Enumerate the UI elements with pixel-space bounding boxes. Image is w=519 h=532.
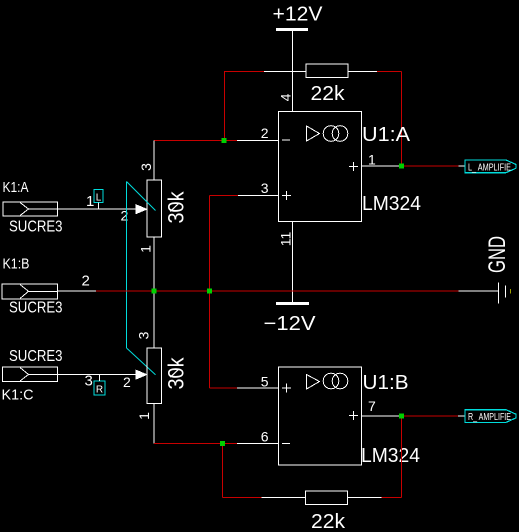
wire white stub left of bottom 22k: [262, 497, 306, 499]
svg-text:5: 5: [261, 374, 269, 390]
svg-text:LM324: LM324: [362, 193, 421, 215]
wire white terminal R stub: [458, 415, 465, 417]
svg-text:2: 2: [261, 125, 269, 141]
wire white K1:B stub: [58, 290, 97, 292]
wire white pin 3 stub: [238, 195, 279, 197]
connector K1:A: [3, 179, 63, 236]
svg-text:30k: 30k: [164, 191, 189, 224]
svg-text:L: L: [96, 193, 102, 204]
wire red bottom feedback horizontal: [223, 497, 262, 499]
junction plus-inputs / rail: [207, 289, 212, 294]
connector K1:C: [2, 348, 63, 404]
wire red pin6 feedback vertical: [222, 444, 224, 498]
wire red feedback top-left vertical: [224, 72, 226, 141]
wire red plus-inputs vertical: [209, 196, 211, 389]
ground symbol: [484, 236, 511, 304]
svg-text:GND: GND: [484, 236, 511, 273]
svg-text:SUCRE3: SUCRE3: [9, 300, 63, 317]
svg-text:U1:A: U1:A: [362, 124, 411, 146]
resistor 22k (bottom feedback): [306, 491, 348, 532]
svg-text:6: 6: [261, 429, 269, 445]
svg-text:L_ AMPLIFIE: L_ AMPLIFIE: [468, 163, 511, 174]
svg-text:LM324: LM324: [361, 445, 420, 467]
wire white pin 7 output stub: [362, 415, 402, 417]
junction pin6: [220, 441, 225, 446]
wire white pin 6 stub: [237, 443, 279, 445]
svg-text:K1:C: K1:C: [2, 387, 34, 404]
wire K1:C to bottom pot wiper: [58, 374, 137, 376]
svg-text:K1:A: K1:A: [3, 179, 29, 196]
wire red pin 5 horizontal: [210, 387, 238, 389]
svg-text:1: 1: [138, 245, 154, 253]
wire white stub right of 22k: [348, 71, 377, 73]
svg-text:3: 3: [85, 373, 93, 390]
wire white pin 1 output stub: [362, 165, 402, 167]
svg-text:2: 2: [121, 208, 129, 224]
pot gang actuator line: [127, 182, 156, 375]
svg-text:22k: 22k: [311, 511, 346, 532]
wire white terminal stub: [459, 165, 465, 167]
power +12V: [273, 4, 324, 32]
potentiometer 30k (top): [136, 180, 189, 237]
svg-text:7: 7: [368, 398, 376, 414]
wire red pin 3 horizontal: [210, 195, 239, 197]
junction top pin2: [222, 138, 227, 143]
wire red output to terminal R: [402, 415, 459, 417]
wire red feedback right vertical: [401, 72, 403, 167]
svg-text:1: 1: [368, 152, 376, 168]
connector K1:B: [2, 256, 63, 317]
svg-text:+12V: +12V: [273, 4, 324, 26]
svg-text:SUCRE3: SUCRE3: [9, 348, 63, 365]
wire white pin 5 stub: [237, 387, 279, 389]
wire red output feedback vertical: [401, 416, 403, 498]
junction U1:B output: [399, 414, 404, 419]
svg-text:4: 4: [278, 93, 294, 101]
wire white pin 11 stub down through gnd rail: [292, 222, 294, 303]
svg-text:2: 2: [123, 374, 131, 390]
wire white pin 2 stub: [237, 140, 279, 142]
svg-text:1: 1: [136, 412, 152, 420]
svg-text:22k: 22k: [311, 83, 346, 105]
wire red pot1 to pin6 junction: [154, 443, 237, 445]
node label L: [94, 190, 103, 210]
resistor 22k (top feedback): [306, 64, 348, 105]
svg-text:2: 2: [82, 273, 90, 290]
wire red output to terminal: [402, 165, 459, 167]
potentiometer 30k (bottom): [136, 348, 189, 404]
wire white pot bottom pin 1 to rail: [153, 237, 155, 291]
wire white pot top pin 3: [153, 141, 155, 181]
svg-text:3: 3: [261, 180, 269, 196]
junction pot chain / rail: [152, 289, 157, 294]
wire red top horizontal right: [377, 71, 402, 73]
op-amp U1:A: [279, 112, 422, 222]
wire white bottom pot pin 1: [153, 404, 155, 444]
wire red pot3 to pin2 junction: [154, 140, 237, 142]
svg-text:3: 3: [136, 331, 152, 339]
node label R: [94, 375, 105, 396]
svg-text:−12V: −12V: [264, 313, 317, 335]
wire +12V vertical to U1:A pin 4: [292, 31, 294, 112]
svg-text:30k: 30k: [164, 357, 189, 390]
wire white stub right of bottom 22k: [348, 497, 382, 499]
wire K1:A to top pot wiper: [58, 208, 137, 210]
wire white bottom pot pin 3: [153, 291, 155, 348]
power -12V: [264, 302, 317, 335]
svg-text:R_ AMPLIFIE: R_ AMPLIFIE: [468, 412, 511, 423]
wire red top horizontal left of R: [224, 71, 264, 73]
svg-text:11: 11: [278, 232, 294, 247]
svg-text:SUCRE3: SUCRE3: [9, 219, 63, 236]
wire red bottom feedback right: [382, 497, 402, 499]
svg-text:1: 1: [86, 193, 94, 210]
junction U1:A output: [399, 164, 404, 169]
svg-text:R: R: [96, 385, 103, 396]
svg-text:K1:B: K1:B: [3, 256, 30, 273]
terminal L_AMPLIFIE: [465, 160, 516, 174]
svg-text:U1:B: U1:B: [363, 372, 409, 394]
svg-text:3: 3: [138, 163, 154, 171]
wire white gnd stub: [459, 290, 499, 292]
op-amp U1:B: [279, 367, 421, 467]
wire red ground rail: [96, 290, 459, 292]
terminal R_AMPLIFIE: [465, 410, 516, 423]
wire white stub left of 22k: [264, 71, 306, 73]
